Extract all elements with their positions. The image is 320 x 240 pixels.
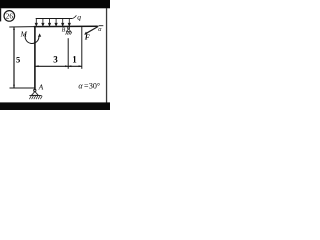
dim middle arrowheads	[65, 65, 68, 67]
svg-text:26: 26	[6, 13, 14, 21]
dim 5 bottom arrowhead	[13, 85, 15, 88]
dimension extension line right (1)	[81, 27, 83, 69]
svg-text:1: 1	[72, 55, 77, 65]
svg-text:α=30°: α=30°	[78, 82, 100, 91]
top-left corner lip	[0, 8, 1, 21]
support A hatching	[29, 96, 42, 99]
right page border	[106, 8, 107, 104]
load arrow 1	[35, 19, 70, 26]
bottom extension line	[10, 87, 35, 89]
support B triangle	[67, 29, 71, 32]
force F line	[85, 26, 98, 33]
top black band (scan edge)	[0, 0, 110, 8]
load arrow 2	[42, 19, 44, 25]
alpha reference dash	[99, 25, 104, 27]
load arrow 3	[49, 19, 51, 25]
dimension extension line below B	[67, 38, 69, 69]
support B hatching	[66, 32, 72, 35]
q hook curve	[72, 15, 76, 18]
force F arrowhead	[84, 32, 87, 35]
support B pin circle	[68, 27, 70, 29]
dimension line 3 and 1	[35, 65, 81, 67]
beam (top horizontal member)	[34, 25, 98, 27]
support A base line	[29, 95, 41, 97]
dim 5 top arrowhead	[13, 27, 15, 30]
dim right arrowhead	[79, 65, 82, 67]
load arrow 5	[62, 19, 64, 25]
svg-text:3: 3	[53, 55, 58, 65]
svg-text:q: q	[77, 12, 81, 21]
svg-text:A: A	[38, 83, 44, 92]
svg-text:5: 5	[16, 55, 20, 65]
top extension line (dimension 5)	[9, 26, 34, 28]
page background	[0, 0, 110, 110]
problem number circle	[4, 11, 15, 22]
svg-text:F: F	[85, 32, 90, 41]
left dimension line (5)	[13, 27, 15, 87]
distributed load top line	[36, 18, 73, 20]
support A pin circle	[34, 89, 36, 91]
bottom page border band	[0, 102, 110, 110]
dim left arrowhead	[36, 65, 39, 67]
moment arrowhead	[38, 33, 41, 37]
load arrow 4	[55, 19, 57, 25]
svg-text:B: B	[62, 27, 66, 33]
svg-text:M: M	[20, 29, 28, 38]
load arrow 6	[68, 19, 70, 25]
support A triangle	[32, 92, 39, 96]
column (vertical member)	[34, 26, 36, 90]
moment M arc	[25, 34, 39, 44]
